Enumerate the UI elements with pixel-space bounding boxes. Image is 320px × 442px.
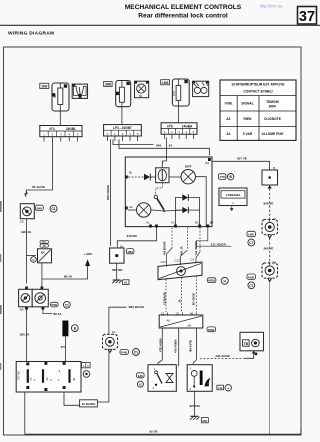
wire A/B 3A/VE dashed [199, 357, 245, 360]
svg-text:5 VAR: 5 VAR [243, 132, 253, 136]
wires control box to strip A (dashed columns) [171, 228, 173, 248]
pump2 bottom terminal [268, 278, 272, 281]
svg-text:580 NO: 580 NO [112, 268, 123, 272]
wire 649 into relay top [166, 157, 168, 161]
svg-text:4B: 4B [43, 244, 46, 248]
branch to NC box [27, 255, 37, 257]
wire B1 to diode (dashed) [128, 176, 144, 178]
svg-text:B4: B4 [206, 161, 210, 165]
connector letter low left [137, 381, 143, 387]
svg-text:M5B: M5B [208, 279, 215, 283]
page number box 37 [298, 7, 317, 26]
svg-text:C1: C1 [65, 303, 69, 307]
interconnect strip A (slanted) [158, 262, 202, 280]
svg-text:C8 BA/VE: C8 BA/VE [163, 292, 167, 305]
svg-text:B04: B04 [42, 240, 47, 244]
svg-text:1B: 1B [20, 220, 24, 224]
wire fuse1 to strip1 [59, 111, 61, 126]
connector letter low right [225, 385, 231, 391]
svg-text:LM8: LM8 [162, 81, 169, 85]
header rule [0, 24, 320, 26]
svg-text:89 JA: 89 JA [64, 274, 73, 278]
svg-text:4M 34/TE: 4M 34/TE [189, 340, 193, 352]
wire 207 VE from box to splice [212, 161, 270, 170]
wire strip2 pin2 to node 649 [113, 139, 154, 144]
wire fuse3 to strip3 [177, 106, 179, 123]
splice bottom terminal [268, 185, 272, 189]
svg-text:5A: 5A [53, 94, 57, 98]
svg-text:C1: C1 [134, 351, 138, 355]
instrument label arrow [230, 206, 233, 212]
diode left vertical to terminal [176, 198, 183, 227]
svg-text:C1: C1 [51, 207, 55, 211]
ground G2 label [201, 418, 208, 423]
ECU wire pin3 down to label [64, 392, 80, 405]
svg-text:89 JA: 89 JA [54, 312, 63, 316]
diode D2 [182, 194, 188, 201]
label 10 BA/RG [80, 400, 98, 407]
connector letter D [31, 257, 37, 263]
svg-text:L11: L11 [218, 386, 223, 390]
svg-text:B5: B5 [20, 308, 24, 312]
svg-text:1N6: 1N6 [41, 85, 47, 89]
connector letter C7 [248, 239, 255, 246]
terminal A4 [155, 225, 158, 228]
wire clock down [26, 219, 28, 284]
NC relay box [38, 249, 52, 263]
wire 260 VE [269, 238, 271, 262]
fuse F1 [52, 83, 69, 111]
connector letter J [50, 205, 57, 212]
wire switch box down to ground [193, 391, 195, 416]
label 4B9 [126, 249, 134, 254]
svg-text:B3: B3 [195, 221, 199, 225]
wire 580 BA/VE [109, 307, 127, 334]
svg-text:C13: C13 [161, 260, 167, 264]
fuse F3 label [161, 80, 170, 85]
svg-text:A1: A1 [226, 132, 230, 136]
label L11 [217, 385, 224, 390]
svg-text:4B9: 4B9 [127, 250, 133, 254]
svg-text:340 JA: 340 JA [179, 246, 183, 255]
svg-text:SI INTERRUPTEUR EST APPUYE: SI INTERRUPTEUR EST APPUYE [231, 82, 285, 86]
svg-text:A3: A3 [171, 221, 175, 225]
wire NC down to relay K3 [41, 263, 43, 290]
diode D3 [182, 207, 188, 214]
fuse F2 label [104, 81, 112, 86]
svg-text:C7: C7 [249, 284, 253, 288]
TB relay box [240, 332, 264, 355]
svg-text:939: 939 [138, 374, 143, 378]
signal table [220, 80, 296, 140]
svg-text:107 NO: 107 NO [17, 371, 21, 380]
wire switch to ground [116, 263, 118, 279]
wire fuse2 to strip2 [121, 107, 123, 125]
connector letter K [63, 301, 70, 308]
svg-text:1B4 JA: 1B4 JA [21, 230, 32, 234]
connector letter C7 second [248, 282, 255, 289]
svg-text:MH: MH [202, 419, 207, 423]
svg-text:N°6: N°6 [167, 124, 173, 128]
svg-text:B2: B2 [210, 221, 214, 225]
connector letter near R1 [71, 325, 78, 332]
connector strip 3 [161, 123, 197, 139]
pressure switch box [187, 365, 212, 392]
svg-text:ALLUME FIXE: ALLUME FIXE [262, 132, 285, 136]
svg-text:A1: A1 [226, 117, 230, 121]
wire K2 down to ECU [26, 310, 28, 362]
indicator gauge box [72, 84, 87, 98]
svg-text:WIRING DIAGRAM: WIRING DIAGRAM [8, 31, 54, 37]
svg-text:60: 60 [139, 94, 143, 98]
svg-text:JA: JA [178, 299, 182, 303]
svg-text:A/B 3A/VE: A/B 3A/VE [215, 354, 230, 358]
wire K3 to 89 JA [43, 310, 53, 314]
relay coil K1 [156, 168, 169, 183]
svg-text:M7B: M7B [208, 328, 215, 332]
switch S1 [154, 195, 165, 212]
wire 211 VE/GR [196, 228, 231, 247]
svg-text:TEMOIN: TEMOIN [266, 100, 279, 104]
svg-text:P6B: P6B [51, 303, 58, 307]
ECU pin 3 [57, 362, 77, 389]
wire strip2 pin3 to box top right [119, 139, 210, 155]
svg-text:B: B [273, 166, 275, 170]
+APC arrow [85, 259, 90, 266]
ECU side connector letter [83, 371, 90, 378]
diode D1 [144, 174, 156, 181]
label P6B [51, 302, 59, 307]
label H50 [247, 231, 255, 236]
terminal A2 [125, 205, 133, 210]
splice box R [262, 166, 278, 185]
svg-text:SIGNAL: SIGNAL [241, 102, 253, 106]
svg-text:A1: A1 [146, 221, 150, 225]
strip A top pins [161, 257, 197, 266]
svg-text:A8: A8 [188, 324, 192, 328]
svg-text:C4: C4 [191, 257, 195, 261]
svg-text:a4: a4 [45, 377, 49, 380]
fuse F2 [116, 81, 131, 107]
ECU pin 1 [26, 362, 36, 389]
svg-text:B48: B48 [36, 206, 42, 210]
wires strip A to strip B (dashed columns) [165, 279, 167, 312]
wire strip1 pin2 down [26, 140, 52, 190]
svg-text:744 VE/GR: 744 VE/GR [194, 241, 198, 255]
wire pump2 down [269, 282, 271, 435]
svg-text:749 BA/VE: 749 BA/VE [162, 241, 166, 255]
svg-text:+ APC: + APC [84, 252, 94, 256]
svg-text:TB: TB [244, 342, 249, 346]
wire A2 to lamp2 [128, 209, 137, 211]
wire junction down to label [97, 353, 109, 403]
svg-text:343 NO: 343 NO [127, 234, 138, 238]
svg-text:5B0 BA/VE: 5B0 BA/VE [129, 305, 145, 309]
lamp L2 [137, 203, 151, 217]
left page-edge scan marks [0, 201, 2, 370]
svg-text:Rear differential lock cont: Rear differential lock control [138, 12, 228, 19]
wire TB box to A/B line [245, 351, 254, 359]
+APC feed [42, 266, 88, 279]
relay K3 [32, 289, 48, 307]
terminal B1 [125, 171, 133, 179]
svg-text:3A: 3A [112, 330, 116, 334]
control unit box U1 [125, 157, 212, 227]
svg-text:MECHANICAL ELEMENT CONTROLS: MECHANICAL ELEMENT CONTROLS [125, 4, 242, 11]
wire relay bottom to switch (dashed) [156, 183, 163, 196]
wires strip B down to units [161, 328, 163, 360]
relay terminals [20, 287, 44, 312]
junction unit J1 [103, 330, 118, 349]
svg-text:10 BA/RG: 10 BA/RG [82, 402, 97, 406]
ground G1 label [123, 280, 129, 285]
svg-text:925 NO: 925 NO [190, 404, 201, 408]
svg-text:649: 649 [156, 143, 161, 147]
arrow into clock unit [24, 190, 27, 197]
NC labels [40, 240, 48, 248]
interconnect strip B [159, 315, 203, 328]
svg-text:H5B: H5B [248, 275, 255, 279]
label H5B [247, 274, 255, 279]
svg-text:24GBL: 24GBL [66, 127, 76, 131]
svg-text:27?: 27? [61, 345, 66, 349]
fuse F3 [172, 79, 189, 106]
clock unit H [20, 204, 34, 219]
svg-text:24GBA: 24GBA [182, 124, 193, 128]
diode right vertical [188, 198, 199, 227]
svg-text:59 JA/VE: 59 JA/VE [32, 185, 45, 189]
resistor R1 [62, 321, 68, 337]
pump unit M2 [262, 261, 278, 279]
pump unit M1 [262, 217, 278, 235]
svg-text:846 VE: 846 VE [264, 202, 274, 206]
connector letter C1 mid [133, 349, 140, 356]
wire strip2 pin1 down (640 OR/NG) [110, 139, 112, 246]
connector letter B [227, 174, 233, 180]
label 939 [137, 373, 145, 378]
svg-text:B0 45/VE: B0 45/VE [191, 293, 195, 305]
fuse F1 label [40, 83, 49, 88]
wire switch contact to diode bus [164, 209, 182, 212]
svg-text:92 VE: 92 VE [150, 429, 158, 433]
svg-text:260 VE: 260 VE [264, 246, 274, 250]
svg-text:140/BA/BA: 140/BA/BA [226, 193, 242, 197]
svg-text:478: 478 [220, 175, 225, 179]
label 478 [219, 174, 226, 180]
connector letter H [221, 277, 228, 284]
svg-text:A2: A2 [129, 205, 133, 209]
label P4B [120, 350, 128, 355]
wire 846 VE dashed [269, 189, 271, 218]
lamp DIFF [181, 164, 195, 184]
instrument label box [219, 188, 247, 206]
svg-text:H50: H50 [248, 233, 254, 237]
connector strip 1 [40, 126, 82, 142]
svg-text:4TA 45/BA: 4TA 45/BA [174, 339, 178, 353]
wire lamp to right bus [195, 177, 206, 227]
svg-text:640 OR/NG: 640 OR/NG [106, 184, 110, 200]
svg-text:VOIE: VOIE [225, 102, 234, 106]
diode unit box [148, 365, 176, 392]
diff switch box S2 [110, 244, 124, 263]
wire R1 down to ECU [64, 336, 66, 361]
label M7B [207, 327, 216, 332]
wire strip3 pin2 down 649 JA [166, 138, 168, 158]
svg-text:N°3: N°3 [49, 127, 55, 131]
label M58 [207, 278, 216, 283]
junction bottom terminal [108, 349, 112, 352]
svg-text:C7: C7 [249, 241, 253, 245]
twin gauge box [193, 81, 209, 96]
wire 343 NO from A4 [117, 227, 156, 248]
svg-text:DIFF: DIFF [185, 164, 192, 168]
warning lamp box [135, 81, 149, 98]
wire relay to lamp [169, 176, 181, 178]
svg-text:CLIGNOTE: CLIGNOTE [264, 117, 282, 121]
svg-text:AL: AL [124, 281, 128, 285]
wire lamp2 to switch contact [151, 210, 164, 211]
ECU box [16, 362, 81, 393]
relay K2 [19, 289, 33, 307]
box bottom terminals [146, 221, 214, 228]
svg-text:DIFF: DIFF [269, 105, 276, 109]
svg-text:A6: A6 [167, 319, 171, 323]
terminal B2 top right [206, 158, 211, 165]
ground G1 [112, 280, 122, 283]
svg-text:C13: C13 [175, 258, 181, 262]
svg-text:a2: a2 [29, 377, 33, 380]
svg-text:B1: B1 [129, 171, 133, 175]
bottom bus wire 92 VE [25, 429, 301, 434]
svg-text:JM6: JM6 [105, 83, 112, 87]
connector strip 2 [104, 125, 142, 141]
svg-text:a6: a6 [72, 378, 76, 381]
svg-text:4TE 45/BA: 4TE 45/BA [158, 338, 162, 352]
ECU pin 2 [42, 362, 53, 391]
ground G2 [190, 416, 200, 420]
svg-text:1B0 JA: 1B0 JA [19, 333, 30, 337]
label SP40 [35, 205, 43, 210]
pump1 bottom terminal [268, 235, 272, 238]
svg-text:LP4 - 24GBT: LP4 - 24GBT [113, 126, 132, 130]
svg-text:http://vnx.su: http://vnx.su [260, 4, 283, 9]
svg-text:207 VE: 207 VE [237, 157, 247, 161]
svg-text:211 VE/GR: 211 VE/GR [211, 242, 227, 246]
svg-text:P4B: P4B [121, 351, 128, 355]
ECU wire left down to bottom bus [24, 392, 26, 434]
svg-text:15A: 15A [172, 91, 176, 96]
svg-text:CONTACT ETABLI: CONTACT ETABLI [243, 89, 272, 93]
ECU side label [82, 363, 91, 368]
svg-text:37: 37 [299, 9, 315, 25]
svg-text:RIEN: RIEN [244, 117, 252, 121]
